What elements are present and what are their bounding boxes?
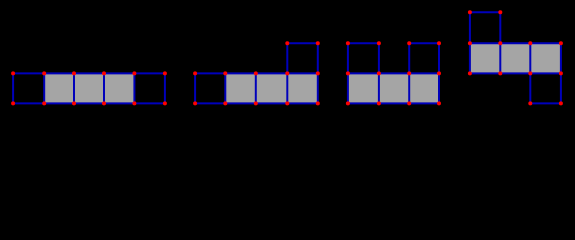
shaded cells P3 <box>348 73 439 103</box>
wire bottom edge P1 <box>13 102 165 104</box>
vertices P3 <box>346 41 441 105</box>
vertices P4 <box>468 10 563 105</box>
polyomino 1: row of 5 cells, middle 3 shaded <box>13 73 165 103</box>
wire top edge P4 <box>470 42 561 44</box>
wire top edge P2 <box>195 72 318 74</box>
wire bottom edge P2 <box>195 102 318 104</box>
wire verticals P3 <box>347 43 349 103</box>
wire verticals P4 <box>469 12 471 73</box>
polyomino 3: row of 3 shaded cells + open cells on top of 1st and 3rd <box>348 43 439 103</box>
wire top edge P3 <box>348 72 439 74</box>
polyomino 4: row of 3 shaded cells (upper level) + open cell above 1st and below 3rd <box>470 12 561 103</box>
wire top cell edges P3 <box>348 42 379 44</box>
wire bottom edge P4 <box>470 72 561 74</box>
vertices P2 <box>193 41 320 105</box>
wire verticals P2 <box>194 73 196 103</box>
wire bottom cell edge P4 <box>530 102 561 104</box>
wire top cell edge P4 <box>470 11 500 13</box>
wire top edge P1 <box>13 72 165 74</box>
wire verticals P1 <box>12 73 14 103</box>
polyomino 2: row of 4 cells (3 shaded) + open cell on top of 4th <box>195 43 318 103</box>
vertices P1 <box>11 71 167 105</box>
wire bottom edge P3 <box>348 102 439 104</box>
shaded cells P2 <box>225 73 317 103</box>
wire top cell edge P2 <box>287 42 318 44</box>
shaded cells P4 <box>470 43 561 73</box>
shaded cells P1 <box>44 73 134 103</box>
